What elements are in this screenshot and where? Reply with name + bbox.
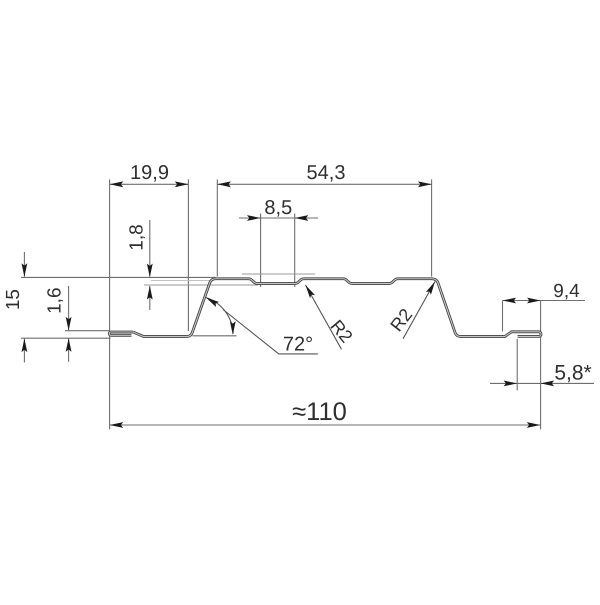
svg-text:1,6: 1,6 [45, 287, 66, 313]
svg-text:72°: 72° [283, 334, 313, 356]
svg-text:15: 15 [3, 289, 24, 310]
svg-text:8,5: 8,5 [264, 197, 292, 219]
svg-text:≈110: ≈110 [292, 398, 347, 426]
svg-text:9,4: 9,4 [553, 281, 580, 302]
svg-text:54,3: 54,3 [307, 162, 346, 184]
svg-text:19,9: 19,9 [130, 162, 169, 184]
svg-text:5,8*: 5,8* [554, 362, 591, 385]
svg-text:1,8: 1,8 [126, 224, 147, 250]
